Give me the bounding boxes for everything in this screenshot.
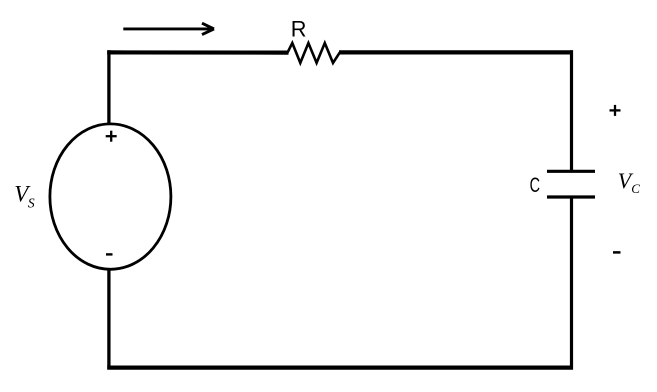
wire left vertical (source bottom lead) [107, 270, 110, 370]
voltage source U1 ellipse [50, 124, 171, 269]
wire right vertical (capacitor bottom lead) [570, 197, 573, 370]
capacitor minus sign [613, 251, 621, 254]
svg-text:S: S [28, 196, 35, 211]
voltage source plus sign [106, 131, 117, 142]
current arrow [123, 23, 214, 34]
wire bottom horizontal [107, 366, 573, 370]
voltage source minus sign [106, 253, 113, 255]
wire top-left horizontal [107, 50, 288, 54]
svg-text:R: R [291, 16, 307, 41]
capacitor plus sign [610, 105, 621, 116]
wire right vertical (capacitor top lead) [570, 50, 573, 171]
capacitor C1 top plate [547, 170, 595, 173]
svg-text:C: C [530, 172, 540, 197]
wire left vertical (source top lead) [107, 50, 110, 123]
capacitor C1 bottom plate [547, 195, 595, 198]
resistor R1 zigzag [288, 43, 340, 63]
wire top-right horizontal [339, 50, 573, 54]
svg-text:C: C [631, 181, 640, 196]
